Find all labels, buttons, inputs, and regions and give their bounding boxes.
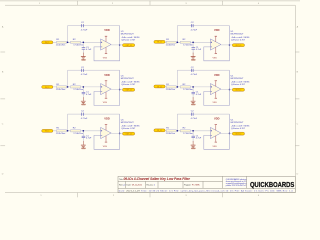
svg-text:Pagson: PC SMK: Pagson: PC SMK	[184, 185, 200, 187]
svg-text:Date: 09-11-2021: Date: 09-11-2021	[127, 184, 143, 187]
svg-text:Re-issu 1: Re-issu 1	[147, 185, 156, 187]
svg-text:Rev: pr: Rev: pr	[119, 185, 126, 187]
svg-text:09-ICs 4-Channel Sallen Key Lo: 09-ICs 4-Channel Sallen Key Low Pass Fil…	[124, 177, 191, 181]
svg-text:phone 555-123-4567 x2: phone 555-123-4567 x2	[226, 185, 247, 187]
svg-text:QUICKBOARDS: QUICKBOARDS	[250, 180, 294, 189]
svg-text:Date: 2021-11-09 Time: 10:33:2: Date: 2021-11-09 Time: 10:33:22 Sheet: 1…	[119, 190, 294, 193]
